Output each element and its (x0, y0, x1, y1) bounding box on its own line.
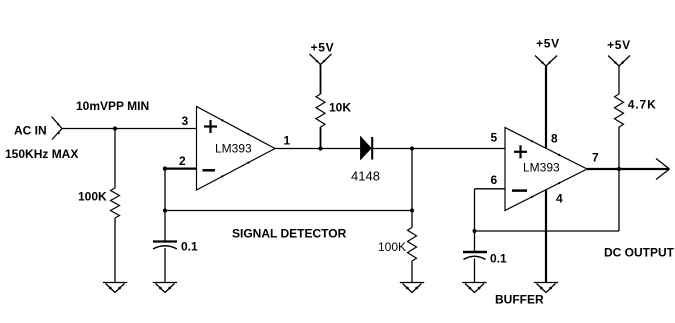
svg-text:LM393: LM393 (215, 142, 252, 156)
svg-text:10mVPP MIN: 10mVPP MIN (76, 99, 149, 113)
svg-text:0.1: 0.1 (181, 240, 198, 254)
svg-text:+5V: +5V (536, 36, 560, 50)
svg-text:100K: 100K (78, 190, 107, 204)
svg-text:LM393: LM393 (523, 161, 560, 175)
svg-text:BUFFER: BUFFER (495, 293, 544, 307)
svg-text:150KHz MAX: 150KHz MAX (5, 147, 78, 161)
svg-text:0.1: 0.1 (490, 252, 507, 266)
svg-text:+5V: +5V (311, 40, 335, 54)
svg-text:10K: 10K (329, 101, 351, 115)
svg-text:5: 5 (491, 131, 498, 145)
svg-text:2: 2 (179, 154, 186, 168)
svg-text:7: 7 (592, 151, 599, 165)
svg-text:8: 8 (551, 132, 558, 146)
svg-text:4148: 4148 (351, 169, 380, 184)
svg-text:DC OUTPUT: DC OUTPUT (604, 246, 675, 260)
svg-text:4.7K: 4.7K (628, 97, 657, 111)
svg-text:SIGNAL DETECTOR: SIGNAL DETECTOR (232, 227, 347, 241)
svg-text:3: 3 (182, 114, 189, 128)
svg-text:4: 4 (556, 192, 563, 206)
svg-text:1: 1 (284, 134, 291, 148)
svg-text:100K: 100K (378, 240, 406, 254)
svg-text:AC IN: AC IN (14, 124, 47, 138)
svg-text:+5V: +5V (607, 38, 631, 52)
svg-text:6: 6 (491, 173, 498, 187)
